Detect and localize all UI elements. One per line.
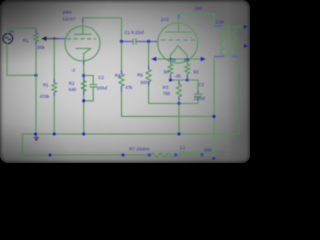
ground symbol xyxy=(34,134,40,141)
node junction ground R6 xyxy=(53,132,56,135)
pin R3 top xyxy=(178,81,180,85)
arrow filament right xyxy=(201,57,206,62)
pin R8 bottom xyxy=(170,75,172,79)
wire U1 plate rail over to C1 xyxy=(83,18,122,42)
pin R2 bottom xyxy=(83,91,85,95)
pin supply terminal xyxy=(213,157,216,160)
pin R4 bottom xyxy=(121,86,123,92)
T1 core xyxy=(227,25,229,58)
wire R1 bottom to ground rail xyxy=(35,42,37,135)
wire -45 node down to R3 xyxy=(178,80,180,85)
U1 plate pin xyxy=(82,18,84,23)
arrow filament left xyxy=(151,57,156,62)
resistor R2 xyxy=(81,81,86,92)
wire U2 plate to 295 rail xyxy=(179,14,214,26)
pin R7 right xyxy=(174,154,178,156)
pin dot filament right xyxy=(186,58,188,60)
wire R6 bottom to ground rail xyxy=(53,93,55,135)
pin highlight cathode xyxy=(83,77,85,81)
node junction plate/C1/R4 xyxy=(120,40,123,43)
T1 secondary coil xyxy=(232,27,236,56)
wire R3 bottom to node xyxy=(178,97,180,104)
wire source top to R1 top xyxy=(8,28,36,34)
wire secondary bottom down to ground rail xyxy=(238,56,240,134)
wire source bottom leg xyxy=(7,43,36,75)
pin 12AX7 cathode exit xyxy=(83,61,85,65)
filament rail xyxy=(156,58,202,60)
resistor R8 xyxy=(168,59,173,80)
node junction B+ rail xyxy=(212,115,215,118)
pin R3 bottom xyxy=(178,97,180,101)
node junction R8 bottom xyxy=(169,78,172,81)
wire node down to ground rail xyxy=(178,104,180,135)
wire primary top xyxy=(224,26,226,27)
potentiometer R1 xyxy=(34,33,38,42)
node junction R9 bottom xyxy=(186,78,189,81)
resistor R3 750 xyxy=(177,85,182,97)
pin R5 top xyxy=(148,65,150,70)
pin R1 bottom xyxy=(35,42,37,46)
pin R1 top xyxy=(35,30,37,34)
capacitor C2 branch wires xyxy=(84,76,94,101)
tube U2 2A3 envelope xyxy=(158,23,198,63)
wire L1 to corner xyxy=(201,154,214,156)
node junction ground R3 xyxy=(177,132,180,135)
pin R7 left xyxy=(147,154,151,156)
bottom supply line left segment xyxy=(23,154,152,156)
U2 plate xyxy=(166,31,192,33)
wire B+ column down to bottom line xyxy=(213,57,215,156)
pin C3 top xyxy=(197,91,199,94)
pin R9 bottom xyxy=(186,75,188,79)
C3 bottom lead xyxy=(197,97,199,104)
wire U1 cathode down xyxy=(83,54,85,135)
wire R4 bottom to B+ rail xyxy=(122,86,215,116)
tube U1 para 12AX7 envelope xyxy=(65,26,100,61)
wire grid node down to R6 xyxy=(53,39,55,82)
wire R5/R3/C3 common node line xyxy=(149,103,198,105)
wire secondary tap output xyxy=(235,45,244,47)
C2 plates xyxy=(90,85,98,87)
resistor R5 500k xyxy=(146,70,151,82)
wire secondary bottom jog xyxy=(231,55,233,58)
U1 cathode xyxy=(76,49,91,54)
U2 plate lead xyxy=(178,23,180,32)
U1 plate lead xyxy=(82,23,84,35)
wire R5 bottom to node xyxy=(148,82,150,104)
C1 right lead xyxy=(136,41,148,43)
node junction R7 right pin xyxy=(174,154,177,157)
resistor R4 47k xyxy=(119,74,124,86)
pin jog secondary bottom xyxy=(232,56,239,58)
wire primary bottom jog xyxy=(224,55,226,58)
U2 grid dashes xyxy=(161,39,195,41)
wire secondary top output xyxy=(232,26,244,28)
node junction R2/C2 bottom xyxy=(82,99,85,102)
resistor R7 10ohm xyxy=(151,153,174,158)
node junction L1 right pin xyxy=(201,153,204,156)
node junction ground R1 xyxy=(34,132,37,135)
wiper arrow of R1 xyxy=(41,36,46,41)
output transformer T1 primary coil xyxy=(221,27,225,56)
U1 grid dashes xyxy=(67,38,96,40)
node junction wiper/grid-leak xyxy=(53,37,55,39)
wire wiper to 12AX7 grid xyxy=(46,38,59,40)
pin highlight grid 12AX7 xyxy=(59,38,66,40)
U2 filament xyxy=(171,46,188,59)
wire between R7 and L1 xyxy=(174,154,180,156)
resistor R9 xyxy=(185,59,190,80)
node junction C1/R5/grid xyxy=(147,40,150,43)
pin L1 right xyxy=(201,154,204,156)
node junction ground cathode xyxy=(82,132,85,135)
pin jog primary top xyxy=(214,25,225,27)
capacitor C1 left lead xyxy=(122,41,133,43)
pin 2A3 plate xyxy=(178,15,180,19)
node junction bottom b xyxy=(122,154,125,157)
pin R6 top xyxy=(53,79,55,83)
wire R8/R9 bottom rail xyxy=(171,79,188,81)
node junction source/R1 column xyxy=(34,74,37,77)
arrow secondary top terminal xyxy=(244,25,248,29)
pin R4 top xyxy=(121,70,123,74)
U1 plate xyxy=(75,33,92,35)
C1 plates xyxy=(133,39,136,45)
pin R6 bottom xyxy=(53,93,55,97)
ground rail xyxy=(23,134,240,155)
capacitor C3 branch top xyxy=(187,80,198,94)
node junction bottom a xyxy=(49,154,52,157)
pin dot filament left xyxy=(169,58,171,60)
pin C3 bottom xyxy=(197,97,199,100)
C3 plates xyxy=(194,94,203,96)
pin jog primary bottom xyxy=(214,56,224,58)
pin R5 bottom xyxy=(148,82,150,86)
node junction cathode/C2 top xyxy=(82,74,85,77)
pin highlight 2A3 grid xyxy=(150,41,159,43)
node junction R3/C3/R5 xyxy=(177,102,180,105)
wire R5 column top xyxy=(148,42,150,70)
inductor L1 xyxy=(180,152,201,155)
arrow secondary tap terminal xyxy=(244,44,248,48)
AC source V1 (IN) xyxy=(3,34,13,44)
wire R4 column top xyxy=(121,42,123,75)
node junction R7 left pin xyxy=(148,154,151,157)
resistor R6 470k xyxy=(52,83,57,93)
